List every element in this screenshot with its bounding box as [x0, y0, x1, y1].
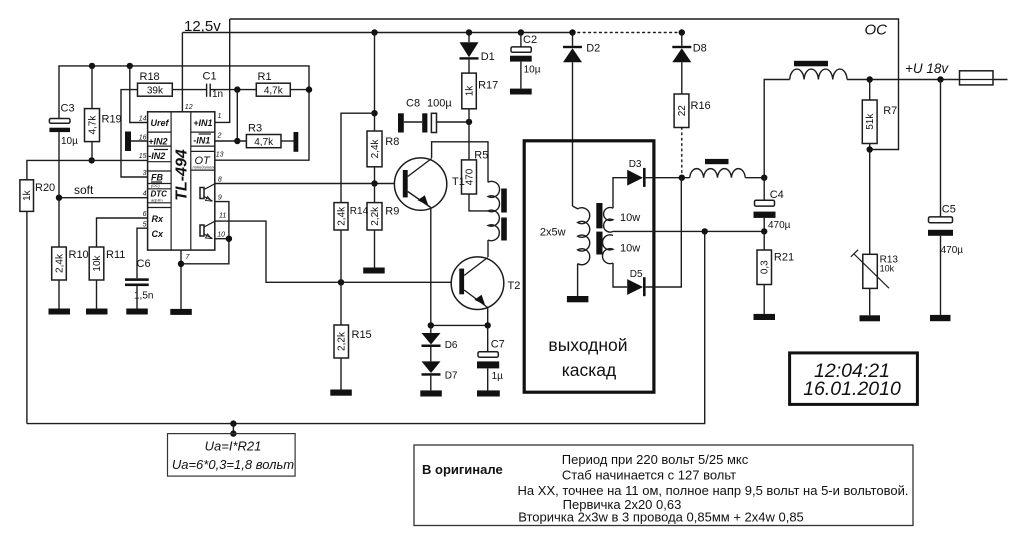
svg-text:12,5v: 12,5v	[184, 18, 221, 35]
svg-text:C2: C2	[523, 34, 537, 46]
node rail / R8 column	[371, 29, 377, 35]
svg-text:4,7k: 4,7k	[88, 115, 99, 135]
wire R15 top	[340, 282, 342, 325]
svg-text:R17: R17	[478, 80, 498, 92]
wire -IN2 line	[27, 160, 148, 179]
wire R16 dotted to D3 line	[681, 128, 683, 178]
wire +U line	[847, 79, 1007, 81]
node emitter rail right	[485, 322, 491, 328]
resistor R15	[334, 325, 372, 358]
node rail / D2	[569, 29, 575, 35]
diode D3	[627, 159, 645, 187]
svg-text:1: 1	[218, 113, 222, 120]
wire C5 top	[940, 80, 942, 217]
node D3/R16/choke	[679, 175, 685, 181]
svg-text:10w: 10w	[620, 243, 640, 255]
resistor R5	[462, 150, 489, 195]
wire 100u to R17 node	[437, 121, 470, 123]
ground primary	[567, 296, 589, 302]
svg-text:R14: R14	[350, 206, 369, 217]
svg-text:470µ: 470µ	[941, 245, 964, 256]
wire R9 top	[374, 184, 376, 203]
svg-text:5: 5	[143, 222, 147, 229]
wire C6 bottom	[136, 286, 138, 308]
diode D5	[627, 269, 645, 296]
node T2 base line / R14-R15	[338, 279, 344, 285]
bar cap R3	[294, 132, 299, 152]
core L2	[705, 159, 729, 164]
node Uref rail / pin14 drop	[127, 63, 133, 69]
node C1/R1/-IN1	[234, 86, 240, 92]
wire C5 bottom	[940, 236, 942, 315]
wire R19 top	[91, 66, 93, 109]
svg-text:2x5w: 2x5w	[540, 227, 566, 239]
wire R7 bottom / node	[869, 144, 871, 255]
wire R8 column top	[374, 33, 376, 132]
wire pin 8 to T1 base	[215, 183, 403, 185]
wire R21 top	[763, 231, 765, 250]
svg-text:adj.lim: adj.lim	[151, 198, 163, 203]
inductor L1	[790, 69, 847, 79]
svg-text:D2: D2	[586, 42, 600, 54]
wire C1 right to R1	[210, 89, 256, 91]
ground C5	[930, 315, 951, 321]
node -IN1	[234, 138, 240, 144]
wire C4 top	[763, 178, 765, 201]
wire pin 7 to ground	[180, 250, 182, 309]
inductor L2 output choke	[690, 169, 746, 178]
node center tap / sense drop	[702, 228, 708, 234]
wire D1 to R17	[468, 60, 470, 74]
svg-text:Rx: Rx	[152, 214, 164, 224]
wire T2 emitter node to C7	[487, 325, 489, 351]
svg-text:Cx: Cx	[152, 229, 164, 239]
wire stub to Ua box	[232, 424, 234, 434]
wire D2 to primary	[572, 62, 574, 206]
node rail / C2	[518, 29, 524, 35]
wire Uref rail	[59, 66, 309, 160]
node R17 / C8	[466, 119, 472, 125]
node R7 / OC / R13	[867, 146, 873, 152]
resistor R3	[246, 123, 281, 149]
svg-text:Ua=I*R21: Ua=I*R21	[205, 439, 262, 454]
svg-text:9: 9	[218, 195, 222, 202]
wire R1 right	[290, 89, 309, 91]
svg-text:T2: T2	[508, 280, 521, 292]
svg-text:D3: D3	[629, 159, 642, 170]
wire R17 node down to R5	[468, 122, 470, 160]
capacitor C1	[203, 71, 224, 101]
wire 12,5v drop to pin 12	[181, 33, 183, 113]
wire +IN1 feedback loop	[215, 19, 230, 122]
resistor R1	[256, 71, 290, 97]
svg-text:39k: 39k	[147, 86, 164, 97]
svg-text:FB: FB	[151, 173, 163, 183]
wire R18 right to C1	[172, 89, 206, 91]
output transistor 1 (pins 8/9)	[200, 188, 204, 199]
resistor R14	[334, 203, 369, 230]
resistor R13 variable	[851, 250, 899, 289]
winding primary 2x5w	[540, 206, 590, 265]
capacitor C4	[754, 189, 791, 231]
ground R21	[754, 314, 776, 320]
svg-text:+IN2: +IN2	[148, 137, 167, 147]
node date stamp box	[790, 353, 918, 405]
svg-text:R3: R3	[248, 123, 262, 135]
diode D2	[563, 42, 600, 62]
wire C7 to ground	[487, 368, 489, 390]
core L1	[794, 61, 828, 67]
svg-text:выходной: выходной	[548, 335, 627, 355]
svg-text:D1: D1	[481, 51, 495, 63]
transistor T1	[394, 158, 464, 210]
wire R21 bottom	[763, 285, 765, 314]
svg-text:победитель: победитель	[193, 165, 216, 170]
core output transformer	[596, 203, 602, 228]
svg-text:10k: 10k	[880, 264, 895, 274]
svg-text:2,2k: 2,2k	[370, 206, 381, 226]
svg-text:15: 15	[139, 153, 147, 160]
capacitor C2	[510, 34, 541, 76]
ground C2	[510, 89, 532, 95]
wire D2 top	[572, 33, 574, 46]
resistor R16	[674, 94, 711, 128]
svg-text:R20: R20	[35, 182, 55, 194]
resistor R20	[20, 180, 55, 212]
svg-text:51k: 51k	[865, 113, 876, 130]
svg-text:R18: R18	[140, 71, 160, 83]
node rail / D1	[466, 29, 472, 35]
svg-text:6: 6	[143, 211, 147, 218]
wire R5 bottom to winding tap	[469, 194, 488, 211]
svg-text:10µ: 10µ	[524, 65, 541, 76]
wire pin 10 stub	[215, 238, 229, 240]
svg-text:+IN1: +IN1	[193, 118, 212, 128]
svg-text:C5: C5	[942, 204, 956, 216]
node soft	[56, 195, 62, 201]
op-amp / PWM controller U1 TL-494	[139, 104, 227, 261]
node R8 column / C8 link	[371, 110, 377, 116]
wire R10 bottom	[58, 280, 60, 309]
wire R18 left to FB	[121, 90, 148, 177]
diode D1	[460, 42, 495, 63]
svg-text:каскад: каскад	[562, 360, 617, 380]
svg-text:16.01.2010: 16.01.2010	[803, 378, 901, 400]
wire D1 top	[468, 33, 470, 43]
svg-text:0,3: 0,3	[760, 260, 771, 274]
node bottom rail / Ua box	[230, 420, 236, 426]
wire winding to T2 collector	[487, 240, 489, 257]
node pin 10	[226, 236, 232, 242]
wire OC top rail	[230, 19, 899, 150]
wire R20 bottom to bottom rail	[26, 211, 28, 423]
svg-text:D5: D5	[630, 269, 643, 280]
output transistor 2 (pins 11/10)	[200, 225, 204, 236]
wire D8 to R16	[681, 62, 683, 94]
node Uref rail / R19	[89, 63, 95, 69]
wire R14 bottom	[340, 230, 342, 282]
svg-text:R15: R15	[352, 329, 372, 341]
svg-text:470: 470	[465, 168, 476, 185]
resistor R10	[52, 247, 89, 280]
svg-text:OC: OC	[865, 22, 888, 39]
wire R7 top	[869, 80, 871, 101]
capacitor 100u	[427, 98, 452, 133]
svg-text:R10: R10	[69, 249, 89, 261]
svg-text:В оригинале: В оригинале	[422, 462, 503, 477]
wire Rx line	[97, 218, 148, 247]
wire T1 collector line	[432, 142, 488, 182]
node choke / C4 riser	[761, 175, 767, 181]
diode D8	[672, 42, 706, 62]
resistor R17	[462, 73, 498, 109]
node rail / D8	[679, 29, 685, 35]
wire D5 up to D3 node	[646, 178, 682, 287]
wire T2 emitter down	[487, 308, 489, 326]
svg-text:T1: T1	[452, 176, 465, 188]
wire center tap	[613, 230, 764, 232]
svg-text:22: 22	[677, 105, 688, 117]
core driver transformer	[501, 189, 507, 213]
svg-text:14: 14	[139, 116, 147, 123]
transistor T2	[451, 257, 520, 310]
svg-text:TL-494: TL-494	[174, 149, 191, 201]
svg-text:-IN1: -IN1	[193, 136, 210, 146]
svg-text:1µ: 1µ	[492, 371, 504, 382]
svg-text:1k: 1k	[22, 189, 33, 201]
node info box	[414, 445, 913, 526]
svg-text:4,7k: 4,7k	[254, 137, 274, 148]
wire C4 bottom	[763, 218, 765, 232]
ground R13	[860, 315, 881, 321]
svg-text:C3: C3	[61, 103, 75, 115]
wire 12,5v rail	[182, 32, 572, 34]
svg-text:R8: R8	[385, 136, 399, 148]
svg-text:1k: 1k	[465, 85, 476, 97]
wire secondary top to D3	[613, 178, 627, 209]
svg-text:10µ: 10µ	[61, 136, 78, 147]
node pin 7	[178, 261, 184, 267]
resistor R8	[367, 131, 399, 167]
svg-text:Вторичка 2х3w в 3 провода 0,85: Вторичка 2х3w в 3 провода 0,85мм + 2х4w …	[518, 510, 804, 525]
svg-text:soft: soft	[74, 183, 94, 197]
node Ua formula box	[168, 434, 296, 477]
wire R19 bottom	[91, 142, 93, 161]
bar cap +IN2	[125, 132, 131, 152]
wire -IN1 node drop	[236, 90, 238, 141]
wire pin2 stub to R3	[215, 140, 247, 142]
node R19 / -IN2 line	[89, 157, 95, 163]
svg-text:11: 11	[219, 213, 226, 220]
capacitor C7	[477, 339, 505, 383]
output stage box	[524, 141, 654, 392]
svg-text:R5: R5	[474, 150, 488, 162]
wire Cx line	[137, 228, 148, 278]
svg-text:R1: R1	[258, 71, 272, 83]
ground R11	[86, 309, 108, 315]
ground R9	[363, 268, 385, 274]
ground pin 7	[170, 309, 192, 315]
wire C2 bottom	[520, 62, 522, 89]
svg-text:470µ: 470µ	[768, 220, 791, 231]
ground D7	[420, 390, 442, 396]
svg-text:C1: C1	[203, 71, 217, 83]
node emitter rail left	[428, 322, 434, 328]
wire +IN2 stub	[131, 140, 148, 142]
svg-text:2: 2	[217, 133, 222, 140]
resistor R9	[367, 203, 399, 230]
wire D3 out to node	[646, 177, 690, 179]
winding secondary 10w lower	[603, 235, 613, 264]
wire pin 9 to ground node	[181, 202, 229, 264]
svg-text:2,4k: 2,4k	[337, 206, 348, 226]
svg-text:Стаб начинается с 127 вольт: Стаб начинается с 127 вольт	[562, 468, 736, 483]
resistor R11	[89, 247, 125, 280]
resistor R7	[862, 100, 897, 144]
svg-text:D6: D6	[445, 340, 458, 351]
svg-text:13: 13	[216, 152, 224, 159]
ground R15	[330, 390, 352, 396]
svg-text:C4: C4	[770, 189, 784, 201]
resistor R19	[85, 109, 122, 142]
svg-text:R9: R9	[385, 206, 399, 218]
ground C6	[126, 309, 148, 315]
svg-text:Ua=6*0,3=1,8 вольт: Ua=6*0,3=1,8 вольт	[172, 457, 294, 472]
wire R13 bottom	[869, 288, 871, 315]
ground R10	[49, 309, 71, 315]
svg-text:16: 16	[139, 135, 147, 142]
wire R3 right to bar	[281, 140, 294, 142]
svg-text:На ХХ, точнее на 11 ом, полное: На ХХ, точнее на 11 ом, полное напр 9,5 …	[518, 483, 909, 498]
wire bottom feedback rail	[27, 231, 705, 423]
wire D6 to D7	[430, 347, 432, 361]
wire C2 top	[520, 33, 522, 47]
node +U / C5	[937, 76, 943, 82]
wire pin 11 to T2 base	[215, 221, 459, 282]
node R1 right / Uref vertical	[306, 86, 312, 92]
svg-text:C7: C7	[491, 339, 505, 351]
svg-text:(OC): (OC)	[151, 183, 160, 188]
svg-text:D7: D7	[445, 371, 458, 382]
wire to D6	[430, 325, 432, 333]
svg-text:R11: R11	[106, 249, 125, 261]
winding W1 driver transformer	[488, 181, 500, 240]
capacitor C6	[125, 258, 153, 302]
svg-text:+U 18v: +U 18v	[905, 61, 949, 76]
node C4 / R21 / tap	[761, 228, 767, 234]
svg-text:2,4k: 2,4k	[370, 138, 381, 158]
wire Uref pin 14	[130, 66, 148, 123]
wire choke to C4 node	[745, 177, 764, 179]
svg-text:R21: R21	[774, 252, 794, 264]
svg-text:100µ: 100µ	[427, 98, 452, 110]
svg-text:10w: 10w	[620, 212, 640, 224]
wire D7 to ground	[430, 376, 432, 391]
svg-text:Период при 220 вольт 5/25 мкс: Период при 220 вольт 5/25 мкс	[562, 452, 749, 467]
svg-text:2,2k: 2,2k	[337, 331, 348, 351]
svg-text:10k: 10k	[92, 254, 103, 271]
capacitor C3	[49, 103, 78, 148]
svg-text:4: 4	[143, 191, 147, 198]
svg-text:3: 3	[143, 170, 147, 177]
svg-text:C6: C6	[137, 258, 151, 270]
resistor R21	[757, 250, 794, 285]
svg-text:12: 12	[185, 104, 193, 111]
svg-text:R16: R16	[691, 100, 711, 112]
fuse F1	[960, 71, 994, 85]
node R8 / base line	[371, 180, 377, 186]
wire emitter rail	[431, 324, 488, 326]
wire C3 to soft column	[58, 132, 60, 247]
wire link to R14 column	[341, 113, 375, 202]
wire R17 bottom	[468, 109, 470, 122]
wire R11 bottom	[96, 280, 98, 309]
diode D6	[422, 333, 458, 351]
svg-text:Uref: Uref	[151, 118, 170, 128]
wire T1 emitter down	[430, 208, 432, 326]
winding secondary 10w upper	[604, 208, 613, 233]
wire R9 bottom	[374, 230, 376, 268]
capacitor C5	[928, 204, 963, 257]
wire primary to ground	[577, 264, 579, 296]
svg-text:8: 8	[218, 177, 222, 184]
wire D8 top	[681, 33, 683, 46]
svg-text:R7: R7	[883, 105, 897, 117]
wire dotted rail to D8	[573, 32, 682, 34]
svg-text:4,7k: 4,7k	[264, 86, 284, 97]
capacitor C8	[398, 98, 427, 133]
svg-text:1n: 1n	[212, 89, 223, 100]
node +U / R7	[867, 76, 873, 82]
wire soft line to DTC	[59, 197, 148, 199]
svg-text:2,4k: 2,4k	[55, 253, 66, 273]
wire secondary bottom to D5	[613, 263, 627, 287]
resistor R18	[138, 71, 173, 97]
wire riser to +U line	[764, 80, 790, 178]
svg-text:R19: R19	[102, 114, 122, 126]
svg-text:D8: D8	[693, 42, 707, 54]
wire R15 bottom	[340, 358, 342, 390]
svg-text:-IN2: -IN2	[148, 151, 165, 161]
svg-text:C8: C8	[406, 98, 420, 110]
wire R8 bottom	[374, 167, 376, 184]
diode D7	[422, 361, 458, 381]
ground C7	[477, 390, 500, 396]
svg-text:10: 10	[217, 232, 225, 239]
